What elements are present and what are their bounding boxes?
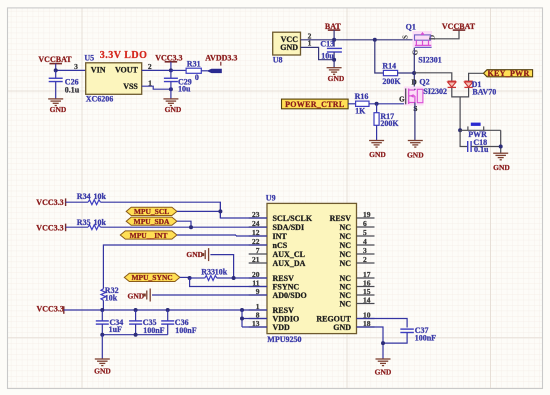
ground under U9 [376,358,391,360]
U9 pin 20 RESV [249,277,267,279]
svg-text:14: 14 [363,295,371,304]
svg-text:GND: GND [407,151,424,160]
svg-text:3: 3 [74,62,78,71]
svg-text:NC: NC [339,299,351,308]
svg-text:3.3V LDO: 3.3V LDO [100,50,148,61]
ground under R17 [369,140,384,142]
U9 pin 7 AUX_CL [249,253,267,255]
wire Q2 source to ground [414,103,416,141]
svg-text:VSS: VSS [123,82,138,91]
svg-text:INT: INT [273,232,288,241]
svg-text:100nF: 100nF [143,326,164,335]
svg-text:100nF: 100nF [415,334,436,343]
svg-text:10u: 10u [321,52,334,61]
svg-text:U5: U5 [84,54,94,63]
svg-text:5: 5 [363,228,367,237]
svg-text:MPU__INT: MPU__INT [130,231,168,240]
resistor R17 [376,104,378,113]
diode D1 right half [464,80,472,82]
svg-text:VOUT: VOUT [115,66,139,75]
svg-text:Q1: Q1 [406,22,416,31]
U9 pin 2 NC [357,262,375,264]
svg-text:VCC3.3: VCC3.3 [37,305,64,314]
capacitor C18 [460,130,468,146]
svg-text:VCC3.3: VCC3.3 [36,198,63,207]
wires D1 cathodes joined [452,88,469,97]
svg-text:KEY_PWR: KEY_PWR [487,69,529,78]
svg-text:NC: NC [339,241,351,250]
net label MPU__INT [120,231,177,239]
svg-text:3: 3 [363,246,367,255]
svg-text:200K: 200K [380,119,399,128]
capacitor C37 [400,328,414,330]
svg-text:S: S [402,35,410,39]
wire R34 to pin23 [101,202,268,218]
svg-text:VIN: VIN [91,66,106,75]
svg-text:AD0/SDO: AD0/SDO [273,291,307,300]
wire Q1 gate node to D1 left anode [414,73,452,81]
push button PWR [458,128,462,132]
svg-text:MPU_SDA: MPU_SDA [134,217,170,226]
U9 pin 14 NC [357,303,375,305]
ground under Q2 [408,140,423,142]
capacitor C13 [333,40,335,47]
svg-text:200K: 200K [382,77,401,86]
svg-text:AUX_CL: AUX_CL [273,250,305,259]
svg-text:AVDD3.3: AVDD3.3 [205,54,237,63]
resistor R35 10k [66,226,88,228]
U9 pin 19 RESV [357,217,375,219]
U9 pin 10 REGOUT [357,318,375,320]
svg-text:0.1u: 0.1u [65,85,80,94]
U9 pin 3 NC [357,253,375,255]
svg-text:U8: U8 [273,56,283,65]
svg-text:MPU_SYNC: MPU_SYNC [131,273,172,282]
U9 pin 22 nCS [249,244,267,246]
wire R35 to pin24 [101,226,268,228]
wire MPU__INT to pin12 [177,234,236,236]
svg-text:SDA/SDI: SDA/SDI [273,223,305,232]
U9 pin 17 NC [357,277,375,279]
U9 pin 4 NC [357,244,375,246]
U9 pin 16 NC [357,286,375,288]
svg-text:GND: GND [280,43,298,52]
wire node A to FSYNC pin11 [190,278,267,287]
svg-text:1: 1 [148,78,152,87]
U9 pin 13 VDD [249,326,267,328]
ground under C13 [333,60,335,68]
svg-text:MPU_SCL: MPU_SCL [134,207,169,216]
svg-text:7: 7 [256,246,260,255]
svg-text:1uF: 1uF [109,325,122,334]
svg-text:1: 1 [308,39,312,48]
svg-text:XC6206: XC6206 [86,95,114,104]
svg-text:S: S [414,105,418,113]
wire bottom rail to ground [102,334,167,336]
svg-text:R35: R35 [77,218,91,227]
net label MPU_SDA [126,217,177,225]
svg-text:Q2: Q2 [419,78,429,87]
wire Q1 drain to VCCBAT [429,30,459,38]
wire U8 pin1 jog [301,47,335,59]
op-amp U5 body XC6206 [86,63,142,95]
ground under C26 [48,98,63,100]
svg-text:4: 4 [363,237,367,246]
wire Q1 gate down to Q2 drain [413,48,415,89]
capacitor C36 [167,310,169,321]
svg-text:R14: R14 [382,62,396,71]
diode D1 left half [448,80,456,82]
svg-text:C13: C13 [320,40,334,49]
svg-text:10k: 10k [94,218,107,227]
svg-text:1K: 1K [355,106,366,115]
svg-text:GND: GND [94,367,111,376]
svg-text:SI2302: SI2302 [423,87,447,96]
svg-text:NC: NC [339,259,351,268]
svg-text:D: D [412,79,417,87]
node VIN junction [54,68,58,72]
svg-text:NC: NC [339,223,351,232]
U9 pin 6 NC [357,226,375,228]
svg-text:GND: GND [375,368,392,377]
U9 pin 18 GND [357,326,375,328]
svg-text:VDD: VDD [273,323,291,332]
ground under C18 [493,152,508,154]
svg-text:10k: 10k [215,268,228,277]
svg-text:2: 2 [363,255,367,264]
resistor R33 10k [190,277,205,279]
svg-text:10u: 10u [178,85,191,94]
wire MPU_SCL [177,210,221,212]
wire BAT rail to Q1 source [334,39,415,41]
capacitor C29 [170,70,172,78]
capacitor C35 [135,310,137,321]
svg-text:NC: NC [339,232,351,241]
svg-text:19: 19 [363,210,371,219]
U9 pin 9 AD0/SDO [249,294,267,296]
U9 pin 11 FSYNC [249,286,267,288]
resistor R31 [171,69,186,71]
capacitor C34 [101,310,103,321]
U9 pin 8 VDDIO [249,318,267,320]
svg-text:R31: R31 [187,59,201,68]
svg-text:RESV: RESV [330,214,352,223]
wire BAT to R14 [375,40,384,73]
wire MPU_SYNC to node A [180,276,190,278]
svg-text:GND: GND [328,74,345,83]
U9 pin 5 NC [357,235,375,237]
wire U8 pin2 to BAT rail [301,39,335,41]
svg-text:BAV70: BAV70 [472,88,496,97]
svg-text:nCS: nCS [273,241,288,250]
wire button right down to gnd [500,130,502,153]
svg-text:VCCBAT: VCCBAT [38,55,72,64]
wire U5 pin1 VSS jog [142,86,171,89]
svg-text:VCC3.3: VCC3.3 [36,224,63,233]
connector U8 [273,32,301,55]
svg-text:SCL/SCLK: SCL/SCLK [273,214,313,223]
capacitor C26 [55,70,57,78]
wire POWER_CTRL to R16 [348,103,356,105]
resistor R32 10k [101,289,106,301]
svg-text:GND: GND [50,105,67,114]
U9 pin 15 NC [357,294,375,296]
net label MPU_SYNC [124,273,180,281]
svg-text:POWER_CTRL: POWER_CTRL [285,100,344,109]
svg-text:AUX_DA: AUX_DA [273,259,306,268]
wire VCC3.3 rail [64,309,267,311]
svg-text:GND: GND [128,291,145,300]
wire gnd port to RESV node [210,255,233,278]
svg-text:R34: R34 [77,192,91,201]
svg-text:R33: R33 [201,268,215,277]
IC U9 MPU9250 body [267,203,357,333]
U9 pin 21 AUX_DA [249,262,267,264]
svg-text:0: 0 [195,73,199,82]
U9 pin 1 RESV [249,309,267,311]
wire VCCBAT to U5 pin3 [56,69,86,71]
svg-text:GND: GND [369,150,386,159]
svg-text:10k: 10k [105,293,118,302]
svg-text:NC: NC [339,250,351,259]
wire nCS pulldown to R32 [103,245,267,289]
wire rail riser pins 1/8/13 [241,310,243,327]
svg-text:21: 21 [252,255,260,264]
net label MPU_SCL [126,207,177,215]
resistor R16 [356,101,369,106]
wire MPU_SDA drop [177,221,191,227]
U9 pin 24 SDA/SDI [249,226,267,228]
net label POWER_CTRL [282,99,349,109]
svg-text:G: G [399,96,405,104]
svg-text:VCC3.3: VCC3.3 [155,53,182,62]
svg-text:0.1u: 0.1u [474,145,489,154]
resistor R14 [383,70,397,75]
svg-text:10k: 10k [94,192,107,201]
U9 pin 12 INT [249,235,267,237]
resistor R34 10k [66,201,88,203]
svg-text:MPU9250: MPU9250 [267,335,301,344]
svg-text:24: 24 [252,219,260,228]
ground under C29 [163,98,178,100]
wire gnd to AD0 pin9 [152,294,267,296]
transistor Q1 SI2301 [413,31,433,47]
U9 pin 23 SCL/SCLK [249,217,267,219]
ground under C34 [95,358,110,360]
svg-text:GND: GND [186,250,203,259]
wire U5 pin2 VOUT [142,69,171,71]
svg-text:6: 6 [363,219,367,228]
svg-text:SI2301: SI2301 [418,55,442,64]
svg-text:GND: GND [333,323,351,332]
svg-text:GND: GND [165,105,182,114]
transistor Q2 SI2302 [404,87,424,106]
wire REGOUT pin10 to C37 [357,319,408,328]
wire GND pin18 down [357,327,384,359]
svg-text:GND: GND [493,163,510,172]
wire KEY_PWR to D1 right anode [469,73,484,81]
svg-text:R16: R16 [355,92,369,101]
svg-text:100nF: 100nF [175,326,196,335]
svg-text:2: 2 [148,62,152,71]
svg-text:U9: U9 [266,194,276,203]
net label KEY_PWR [484,70,533,77]
